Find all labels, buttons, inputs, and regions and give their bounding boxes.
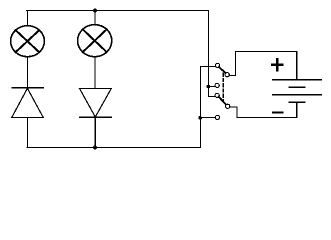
battery label plus [271, 58, 284, 71]
diode D2 [80, 89, 112, 118]
wire pole B to battery negative [230, 103, 297, 118]
battery plate long 2 [273, 94, 322, 96]
switch S1 gang link (dashed) [222, 73, 224, 101]
wire lamp L1 top lead [27, 11, 29, 25]
switch S1 throw contact 2 [215, 83, 219, 87]
wire to switch throw 4 [201, 117, 216, 119]
lamp L2 [78, 25, 112, 57]
wire left return vertical [200, 67, 202, 148]
switch S1 lever pole A [219, 67, 226, 73]
switch S1 throw contact 1 [216, 63, 220, 67]
wire diode D1 bottom lead [27, 117, 29, 147]
battery plate long 1 (positive) [273, 79, 322, 81]
wire to switch throw 2 [208, 86, 215, 88]
switch S1 common pole A [225, 73, 229, 77]
wire pole A to battery positive [229, 52, 297, 80]
wire to switch throw 1 [201, 66, 216, 68]
wire top rail feed down to switch throw 3 [209, 11, 216, 97]
lamp L1 [11, 26, 45, 57]
switch S1 throw contact 3 [215, 93, 219, 97]
diode D1 [12, 88, 44, 118]
junction return / throw 4 [198, 116, 202, 120]
battery plate short 1 [289, 86, 305, 88]
wire bottom rail [27, 147, 201, 149]
junction top rail / lamp L2 [93, 9, 97, 13]
wire top rail [27, 10, 209, 12]
battery label minus [272, 111, 284, 113]
wire lamp L1 bottom lead [27, 57, 29, 88]
battery plate short 2 (negative) [289, 101, 305, 103]
battery B1 [271, 58, 321, 112]
switch S1 throw contact 4 [215, 115, 219, 119]
switch S1 lever pole B [219, 97, 227, 105]
wire lamp L2 bottom lead [94, 57, 96, 88]
switch S1 common pole B [226, 104, 230, 108]
wire diode D2 bottom lead [94, 117, 96, 147]
junction feed / throw 2 [207, 85, 211, 89]
junction bottom rail / diode D2 [93, 146, 97, 150]
wire lamp L2 top lead [94, 11, 96, 25]
